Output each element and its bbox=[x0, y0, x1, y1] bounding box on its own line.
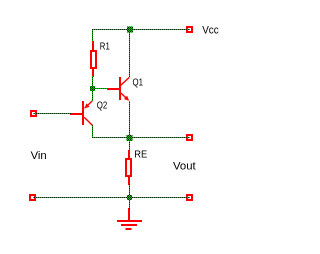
svg-text:Q2: Q2 bbox=[97, 100, 108, 111]
svg-text:Vout: Vout bbox=[173, 161, 196, 173]
svg-text:Vcc: Vcc bbox=[202, 24, 219, 36]
svg-text:Vin: Vin bbox=[31, 150, 47, 162]
svg-text:RE: RE bbox=[134, 149, 147, 160]
svg-text:Q1: Q1 bbox=[133, 77, 144, 88]
svg-text:R1: R1 bbox=[100, 42, 110, 53]
